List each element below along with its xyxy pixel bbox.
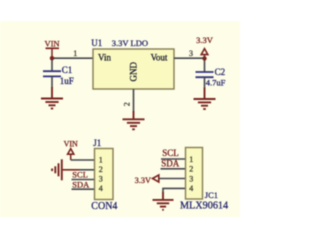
svg-text:GND: GND xyxy=(129,62,139,82)
svg-text:2: 2 xyxy=(189,165,193,174)
svg-text:CON4: CON4 xyxy=(91,201,117,212)
wire U1 Vout pin 3 to node B xyxy=(174,57,205,59)
ground (sideways, at J1 pin 2) xyxy=(52,159,62,180)
svg-text:SCL: SCL xyxy=(162,148,179,158)
svg-text:1: 1 xyxy=(189,155,193,164)
svg-text:MLX90614: MLX90614 xyxy=(180,200,228,211)
wire C1 to ground xyxy=(51,76,53,88)
svg-text:3: 3 xyxy=(189,49,193,58)
junction node B xyxy=(202,56,206,60)
power port 3.3V (arrow style) xyxy=(196,35,214,58)
svg-text:3: 3 xyxy=(99,174,103,183)
svg-text:C2: C2 xyxy=(215,67,226,77)
wire ground to J1 pin 2 xyxy=(63,169,79,171)
svg-text:4: 4 xyxy=(189,184,193,193)
op-amp U1 3.3V LDO regulator body xyxy=(91,38,174,89)
power port VIN (at J1, arrow style) xyxy=(64,139,78,160)
svg-text:1uF: 1uF xyxy=(60,76,74,86)
svg-text:JC1: JC1 xyxy=(205,190,218,200)
ground (under JC1 pin 4) xyxy=(153,192,174,210)
svg-text:SDA: SDA xyxy=(72,179,90,189)
svg-text:2: 2 xyxy=(99,165,103,174)
svg-text:2: 2 xyxy=(123,102,132,106)
capacitor C1 xyxy=(43,65,74,86)
wire J1 pin 3 xyxy=(72,179,95,181)
wire junction A down to C1 xyxy=(51,58,53,71)
svg-text:1: 1 xyxy=(73,49,77,58)
svg-text:3.3V: 3.3V xyxy=(196,35,214,45)
svg-text:Vin: Vin xyxy=(98,52,111,62)
svg-text:SDA: SDA xyxy=(161,158,180,168)
wire node B down to C2 xyxy=(204,58,206,72)
wire J1 pin 4 xyxy=(72,188,95,190)
svg-text:3.3V LDO: 3.3V LDO xyxy=(112,38,148,48)
power port 3.3V (at JC1 pin 3, arrow style pointing left) xyxy=(135,175,159,185)
svg-text:U1: U1 xyxy=(91,38,102,48)
wire JC1 pin 4 to ground xyxy=(163,188,186,193)
svg-text:J1: J1 xyxy=(93,138,101,148)
svg-text:C1: C1 xyxy=(62,65,73,75)
wire JC1 pin 3 xyxy=(159,178,186,180)
svg-text:SCL: SCL xyxy=(72,170,88,180)
svg-text:Vout: Vout xyxy=(151,52,168,62)
junction node A xyxy=(50,56,54,60)
capacitor C2 xyxy=(196,67,226,88)
power port VIN (top-left, bar style) xyxy=(44,39,59,58)
wire U1 GND pin 2 down xyxy=(133,89,135,112)
connector J1 CON4 body xyxy=(91,138,117,212)
svg-text:4: 4 xyxy=(99,184,103,193)
svg-text:4.7uF: 4.7uF xyxy=(206,78,226,88)
wire JC1 pin 1 xyxy=(161,158,186,160)
svg-text:3: 3 xyxy=(189,174,193,183)
wire junction A to U1 pin 1 xyxy=(52,57,93,59)
svg-text:VIN: VIN xyxy=(44,39,59,49)
ground (under U1 pin 2) xyxy=(123,111,145,129)
svg-text:3.3V: 3.3V xyxy=(135,176,151,185)
svg-text:1: 1 xyxy=(99,155,103,164)
wire VIN to J1 pin 1 xyxy=(71,159,95,161)
schematic background xyxy=(0,0,240,240)
svg-text:VIN: VIN xyxy=(64,139,78,148)
ground (under C1) xyxy=(41,87,63,109)
connector JC1 MLX90614 body xyxy=(180,148,228,212)
wire JC1 pin 2 xyxy=(161,168,186,170)
ground (under C2) xyxy=(194,88,216,110)
wire C2 to ground xyxy=(204,77,206,88)
